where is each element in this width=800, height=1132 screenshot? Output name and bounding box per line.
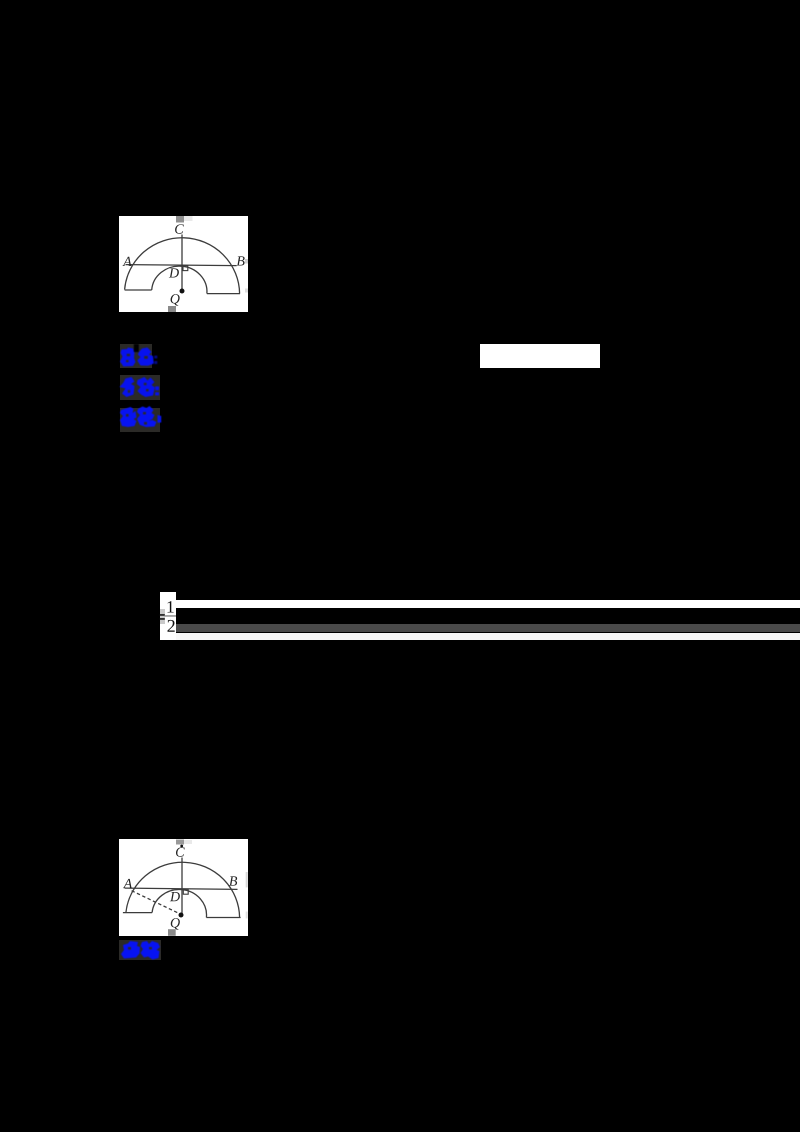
label A [123, 879, 132, 888]
figure 1 top resize handle [176, 216, 184, 223]
blue tag 解答: background block [120, 408, 160, 432]
equals sign top bar [160, 614, 165, 616]
blue tag 考点: background block [120, 344, 152, 368]
bottom right base line [207, 293, 240, 295]
black notch between characters [134, 344, 139, 352]
long white stripe upper [176, 600, 800, 608]
bottom right base line [206, 917, 240, 919]
figure 1 bottom resize handle [168, 306, 176, 312]
label D [169, 268, 179, 277]
figure 1: geometry image with selection handles [119, 216, 248, 312]
figure 2: geometry image with dashed AQ and selection handles [119, 839, 248, 936]
right angle mark at D [183, 889, 188, 894]
blue tag 解答: glyph blobs [118, 405, 164, 431]
figure 1 top handle light ghost [184, 216, 193, 221]
figure 2 bottom resize handle [168, 929, 176, 936]
center dot Q [179, 913, 184, 918]
blue tag 点评: glyph blobs [118, 938, 164, 962]
label D [170, 892, 180, 901]
long white stripe lower [176, 633, 800, 640]
figure 2 top handle light ghost [184, 840, 192, 844]
dashed line AQ [132, 891, 180, 914]
label B [237, 256, 245, 265]
blue tag 分析: glyph blobs [118, 374, 162, 401]
label C [175, 224, 184, 233]
figure 2 right lower tick [246, 912, 248, 919]
figure 1 white background [119, 216, 248, 312]
fraction bar [165, 615, 177, 617]
figure 1 right mid tick [245, 259, 248, 264]
blue tag 分析: background block [120, 375, 160, 400]
fraction numerator 1 [168, 601, 174, 612]
long dark gray stripe [176, 624, 800, 632]
chord AB [126, 265, 237, 266]
chord AB [125, 888, 238, 889]
figure 1 right lower tick [245, 289, 248, 293]
vertical line CQ [181, 858, 183, 916]
right angle mark at D [183, 266, 188, 271]
figure 2 top resize handle [176, 840, 184, 845]
bottom left base line [125, 289, 152, 291]
answer blank white rectangle [480, 344, 600, 368]
blue tag 考点: glyph blobs [118, 344, 162, 369]
label A [122, 257, 131, 266]
small semicircle arc [152, 266, 207, 293]
label B [229, 876, 237, 885]
label Q [171, 918, 180, 930]
big semicircle arc [126, 862, 240, 917]
big semicircle arc [125, 238, 240, 294]
equation =1/2 white background block [160, 592, 176, 640]
fraction denominator 2 [167, 620, 174, 632]
center dot Q [180, 289, 185, 294]
equation digits and bars [158, 590, 182, 642]
equals sign bottom bar [160, 618, 165, 620]
equation equals-sign gray patch [160, 609, 165, 624]
figure 2 right mid tick [246, 872, 248, 887]
figure 2 speck above C [180, 845, 183, 848]
small semicircle arc [152, 889, 206, 917]
label C [176, 847, 185, 856]
vertical line CQ [181, 235, 183, 293]
label Q [171, 294, 180, 306]
glyph outline definitions (Liberation Serif letterforms) [0, 0, 1, 1]
blue tag 点评: background block [119, 940, 161, 960]
bottom left base line [123, 912, 152, 914]
figure 2 white background [119, 839, 248, 936]
